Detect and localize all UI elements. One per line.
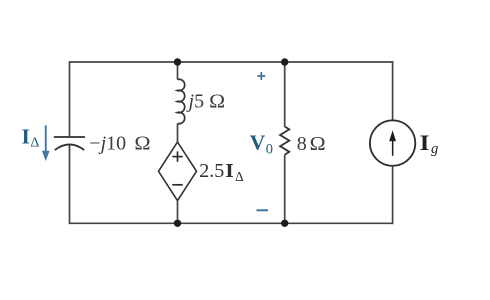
arrow inside current source	[389, 130, 396, 156]
minus inside diamond	[172, 184, 182, 186]
wire top	[70, 61, 394, 63]
junction dot bottom resistor	[281, 220, 288, 227]
svg-text:2.5IΔ: 2.5IΔ	[199, 160, 244, 184]
wire resistor upper	[284, 62, 286, 127]
wire middle upper	[177, 62, 179, 80]
wire left upper	[69, 61, 71, 136]
plus label V0	[257, 72, 265, 80]
plus inside diamond	[172, 151, 182, 161]
wire bottom	[70, 222, 394, 224]
current source Ig circle	[370, 120, 415, 165]
inductor j5 ohm	[178, 79, 185, 123]
svg-text:−j10Ω: −j10Ω	[89, 133, 150, 155]
wire right lower	[392, 166, 394, 224]
wire left lower	[69, 145, 71, 225]
wire resistor lower	[284, 155, 286, 223]
wire middle lower	[177, 200, 179, 223]
resistor 8 ohm zigzag	[280, 127, 289, 155]
wire middle between inductor and source	[177, 124, 179, 143]
capacitor -j10 ohm	[54, 137, 85, 150]
svg-text:j5Ω: j5Ω	[186, 91, 226, 113]
junction dot bottom middle	[174, 220, 181, 227]
junction dot top resistor	[281, 58, 288, 65]
svg-text:V0: V0	[250, 130, 273, 157]
current arrow I-delta	[42, 125, 50, 161]
dependent source 2.5 I-delta (diamond)	[159, 142, 197, 201]
svg-text:IΔ: IΔ	[22, 124, 40, 150]
wire right upper	[392, 61, 394, 120]
minus label V0	[257, 209, 269, 211]
svg-text:8Ω: 8Ω	[297, 133, 326, 155]
svg-text:Ig: Ig	[420, 130, 439, 157]
junction dot top middle	[174, 58, 181, 65]
